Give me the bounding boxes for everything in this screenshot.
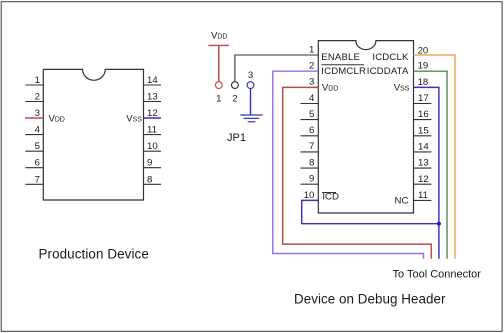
U2 pin 19: [418, 61, 429, 72]
U2 pin 6: [301, 125, 319, 136]
wire junction ICD/Vss to tool connector (blue): [438, 224, 440, 259]
U1 pin 4: [25, 125, 43, 136]
svg-text:5: 5: [35, 141, 40, 152]
U2 pin 7: [301, 141, 319, 152]
svg-text:1: 1: [216, 94, 221, 105]
IC U2 body (Device on Debug Header): [318, 41, 413, 213]
wire U2 pin 20 ICDCLK (orange): [414, 55, 456, 259]
svg-text:17: 17: [418, 93, 429, 104]
U2 pin 17: [414, 93, 432, 104]
U2 pin 8: [301, 157, 319, 168]
svg-text:JP1: JP1: [227, 132, 246, 144]
U2 ICD pin label (active low): [322, 192, 339, 203]
U1 pin 7: [25, 174, 43, 185]
wire JP1 pin 2 to U2 pin 1 ENABLE: [235, 55, 318, 82]
svg-text:2: 2: [232, 94, 237, 105]
svg-text:1: 1: [309, 44, 314, 55]
svg-text:10: 10: [147, 141, 158, 152]
svg-text:7: 7: [309, 141, 314, 152]
VDD power symbol: [208, 31, 229, 46]
U2 pin 16: [414, 109, 432, 120]
svg-text:NC: NC: [395, 196, 409, 207]
svg-text:ICDMCLR: ICDMCLR: [321, 66, 366, 77]
svg-text:7: 7: [35, 174, 40, 185]
U2 pin 20: [418, 45, 429, 56]
svg-text:6: 6: [309, 125, 314, 136]
U2 ICDMCLR pin label (active low): [321, 65, 366, 77]
svg-text:12: 12: [418, 174, 429, 185]
svg-text:13: 13: [418, 158, 429, 169]
U2 pin 15: [414, 125, 432, 136]
U1 pin 10: [144, 141, 162, 152]
JP1 pin 1: [215, 82, 222, 105]
svg-text:11: 11: [418, 190, 428, 201]
svg-text:8: 8: [309, 157, 314, 168]
svg-text:ICDCLK: ICDCLK: [372, 52, 409, 63]
wire JP1 pin 3 to ground: [250, 89, 252, 116]
U1 pin 8: [144, 174, 162, 185]
wire U1 pin 12 Vss stub: [144, 117, 162, 119]
svg-text:14: 14: [147, 75, 158, 86]
svg-text:2: 2: [35, 92, 40, 103]
wire VDD rail to JP1 pin 1: [218, 45, 220, 81]
svg-text:3: 3: [248, 70, 253, 81]
U2 pin 10: [304, 190, 315, 201]
U1 pin 11: [144, 125, 162, 136]
svg-text:3: 3: [309, 77, 314, 88]
U1 pin 12: [147, 108, 158, 119]
svg-text:10: 10: [304, 190, 315, 201]
svg-text:9: 9: [309, 174, 314, 185]
U1 pin 9: [144, 158, 162, 169]
wire U1 pin 3 VDD stub: [25, 117, 43, 119]
svg-text:To Tool Connector: To Tool Connector: [393, 269, 482, 281]
wire U2 pin 10 ICD (blue): [302, 200, 439, 223]
U2 pin 2: [309, 61, 314, 72]
U2 pin 5: [301, 109, 319, 120]
svg-text:ICDDATA: ICDDATA: [367, 66, 409, 77]
U2 pin 18: [418, 77, 429, 88]
U1 pin 14: [144, 75, 162, 86]
svg-text:5: 5: [309, 109, 314, 120]
svg-text:4: 4: [309, 93, 315, 104]
svg-text:8: 8: [147, 174, 152, 185]
svg-text:ENABLE: ENABLE: [321, 52, 360, 63]
svg-text:19: 19: [418, 61, 429, 72]
U1 pin 5: [25, 141, 43, 152]
U1 pin 13: [144, 92, 162, 103]
svg-text:1: 1: [35, 75, 40, 86]
wire U2 pin 2 ICDMCLR (purple): [273, 71, 424, 259]
junction dot: [437, 222, 441, 226]
svg-text:15: 15: [418, 125, 429, 136]
svg-text:Production Device: Production Device: [39, 246, 149, 261]
svg-text:16: 16: [418, 109, 429, 120]
U2 pin 13: [414, 158, 432, 169]
svg-text:11: 11: [147, 125, 157, 136]
JP1 pin 3: [247, 70, 254, 89]
svg-text:13: 13: [147, 92, 158, 103]
U2 pin 11: [414, 190, 432, 201]
IC U1 body (Production Device): [43, 69, 143, 200]
svg-text:6: 6: [35, 158, 40, 169]
U1 pin 1: [25, 75, 43, 86]
ground: [240, 115, 262, 122]
svg-text:2: 2: [309, 61, 314, 72]
U2 pin 3: [309, 77, 314, 88]
JP1 pin 2: [232, 82, 239, 105]
svg-text:ICD: ICD: [322, 192, 339, 203]
U1 pin 6: [25, 158, 43, 169]
U1 pin 3: [35, 108, 40, 119]
wire U2 pin 3 VDD (red): [283, 87, 432, 258]
svg-text:4: 4: [35, 125, 41, 136]
U2 pin 9: [301, 174, 319, 185]
svg-text:14: 14: [418, 142, 429, 153]
U2 pin 4: [301, 93, 319, 104]
U2 pin 1: [309, 44, 314, 55]
svg-text:Device on Debug Header: Device on Debug Header: [294, 291, 446, 306]
U2 pin 12: [414, 174, 432, 185]
svg-text:9: 9: [147, 158, 152, 169]
wire U2 pin 19 ICDDATA (green): [414, 71, 448, 259]
wire U2 pin 18 Vss (blue): [414, 87, 439, 223]
svg-text:18: 18: [418, 77, 429, 88]
U2 pin 14: [414, 142, 432, 153]
U1 pin 2: [25, 92, 43, 103]
